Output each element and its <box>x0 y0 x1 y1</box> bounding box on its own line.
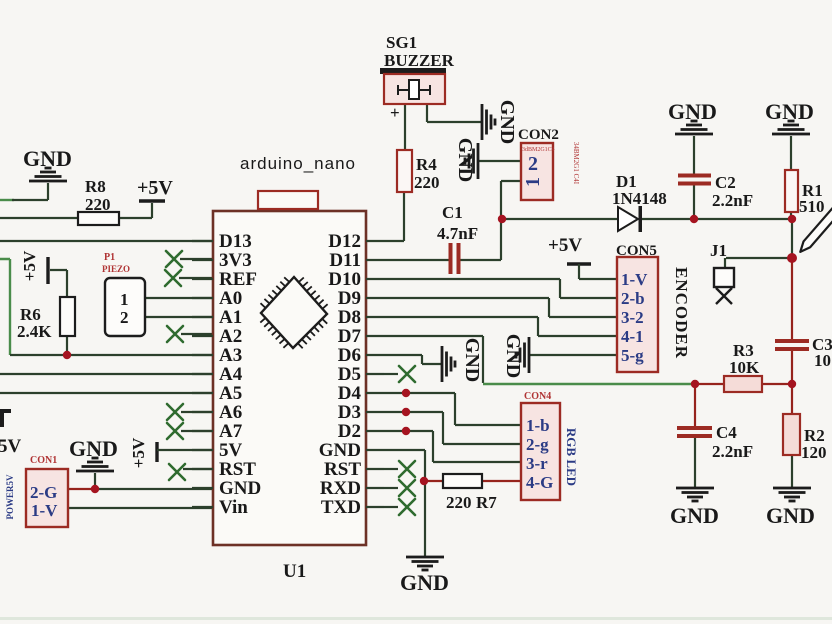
no-connect X D5 <box>399 366 415 382</box>
junction node B <box>691 380 699 388</box>
wire A2 stub <box>181 333 213 335</box>
svg-text:10: 10 <box>814 351 831 370</box>
svg-text:A0: A0 <box>219 288 242 309</box>
resistor R3 <box>724 341 762 392</box>
ground (C4) <box>676 487 714 503</box>
junction D2 <box>402 427 410 435</box>
resistor R4 <box>397 150 440 192</box>
buzzer SG1 <box>380 33 455 122</box>
svg-text:GND: GND <box>69 436 118 461</box>
svg-text:2: 2 <box>120 308 129 327</box>
wire C2 to node <box>693 185 695 219</box>
wire D1 cathode to C2/R1 <box>642 218 792 220</box>
connector P1 PIEZO <box>102 252 145 336</box>
svg-text:5V: 5V <box>219 440 243 461</box>
wire RST left stub <box>183 468 213 470</box>
svg-text:220: 220 <box>85 195 111 214</box>
svg-text:RXD: RXD <box>320 478 361 499</box>
wire 3V3 stub <box>180 258 213 260</box>
svg-text:C4: C4 <box>716 423 737 442</box>
diode D1 1N4148 <box>612 172 667 232</box>
junction J1 <box>787 253 797 263</box>
svg-text:220: 220 <box>446 493 472 512</box>
svg-text:GND: GND <box>219 478 261 499</box>
wire GND to R1 <box>790 136 792 170</box>
wire D11 to C1 <box>384 259 449 261</box>
ground (CON5 pin5) <box>515 337 531 373</box>
svg-text:2.4K: 2.4K <box>17 322 52 341</box>
svg-text:D5: D5 <box>338 364 361 385</box>
no-connect X A2 <box>167 326 183 342</box>
wire D3 to CON4 pin2 <box>384 412 521 444</box>
wire D13 <box>0 240 213 242</box>
wire node R1 down to J1 node <box>791 219 793 258</box>
svg-text:2.2nF: 2.2nF <box>712 442 753 461</box>
resistor R6 <box>17 297 75 341</box>
connector CON2 <box>518 127 559 200</box>
svg-text:2-b: 2-b <box>621 289 645 308</box>
probe arrow <box>797 207 832 254</box>
ground (C2) <box>675 120 713 136</box>
svg-text:2-g: 2-g <box>526 435 549 454</box>
svg-text:GND: GND <box>766 503 815 528</box>
wire J1 to node <box>725 258 792 268</box>
junction GND/CON1 <box>91 485 99 493</box>
svg-text:D12: D12 <box>328 231 361 252</box>
no-connect X 3V3 <box>166 251 182 267</box>
svg-text:1N4148: 1N4148 <box>612 189 667 208</box>
wire RXD stub <box>384 487 398 489</box>
junction C3 <box>788 380 796 388</box>
junction D3 <box>402 408 410 416</box>
wire CON2 pin1 to node A <box>501 181 521 219</box>
svg-text:D6: D6 <box>338 345 361 366</box>
svg-text:REF: REF <box>219 269 257 290</box>
svg-text:A5: A5 <box>219 383 242 404</box>
resistor R2 <box>783 414 827 462</box>
svg-text:CON1: CON1 <box>30 455 57 466</box>
svg-text:10K: 10K <box>729 358 760 377</box>
wire C4 to ground <box>694 437 696 488</box>
wire GND net top-left <box>0 199 14 201</box>
wire D2 to CON4 pin3 <box>384 431 521 462</box>
resistor R1 <box>785 170 825 216</box>
wire GND pin to ground <box>384 450 425 556</box>
svg-text:D7: D7 <box>338 326 362 347</box>
svg-text:GND: GND <box>670 503 719 528</box>
wire +5V to CON5 pin1 <box>579 264 617 279</box>
wire left bus to A3 <box>0 259 10 355</box>
wire +5V to R6 <box>50 270 67 355</box>
svg-text:arduino_nano: arduino_nano <box>240 154 356 173</box>
svg-text:1-V: 1-V <box>621 270 648 289</box>
wire node B to C4 <box>694 384 696 426</box>
wire C3 to node B <box>791 350 793 384</box>
svg-text:A2: A2 <box>219 326 242 347</box>
svg-text:1-b: 1-b <box>526 416 550 435</box>
svg-text:A3: A3 <box>219 345 242 366</box>
svg-text:CON2: CON2 <box>518 127 559 143</box>
svg-text:+5V: +5V <box>129 437 148 468</box>
bottom edge line <box>0 617 832 620</box>
svg-text:34BM2G1 C4I: 34BM2G1 C4I <box>572 142 580 185</box>
wire R3 left lead <box>695 383 724 385</box>
junction R6/A3 <box>63 351 71 359</box>
wire R7 leads <box>425 480 521 482</box>
svg-text:3-r: 3-r <box>526 454 548 473</box>
no-connect X TXD <box>399 499 415 515</box>
svg-text:2.2nF: 2.2nF <box>712 191 753 210</box>
svg-text:GND: GND <box>319 440 361 461</box>
ground (CON1/GND pin) <box>76 457 114 473</box>
wire R1 to node <box>790 212 792 219</box>
wire D6 to GND <box>384 355 441 364</box>
connector CON5 <box>616 243 658 372</box>
svg-text:3V3: 3V3 <box>219 250 252 271</box>
svg-text:U1: U1 <box>283 561 306 582</box>
junction R1 <box>788 215 796 223</box>
svg-text:D10: D10 <box>328 269 361 290</box>
svg-text:+: + <box>390 103 400 122</box>
svg-text:A7: A7 <box>219 421 243 442</box>
capacitor C3 <box>775 335 832 370</box>
ground (CON2 pin2) <box>464 143 480 179</box>
svg-text:PIEZO: PIEZO <box>102 264 130 274</box>
junction D4 <box>402 389 410 397</box>
svg-text:GND: GND <box>454 138 476 182</box>
arduino right pin labels <box>319 231 362 518</box>
arduino top red rectangle <box>258 191 318 209</box>
resistor R8 <box>78 177 119 225</box>
wire D7 down to encoder net <box>384 336 483 383</box>
svg-text:4-1: 4-1 <box>621 327 644 346</box>
svg-text:4.7nF: 4.7nF <box>437 224 478 243</box>
svg-text:ENCODER: ENCODER <box>672 267 691 359</box>
svg-text:D13: D13 <box>219 231 252 252</box>
connector CON1 <box>26 455 68 527</box>
no-connect X A6 <box>167 404 183 420</box>
svg-text:P1: P1 <box>104 252 115 263</box>
svg-text:D11: D11 <box>329 250 361 271</box>
svg-text:5V: 5V <box>0 436 22 457</box>
connector J1 <box>710 241 734 304</box>
wire D5 stub <box>384 373 398 375</box>
svg-text:C2: C2 <box>715 173 736 192</box>
svg-text:SG1: SG1 <box>386 33 417 52</box>
svg-text:+5V: +5V <box>137 177 173 199</box>
svg-text:2: 2 <box>528 153 538 175</box>
svg-text:D2: D2 <box>338 421 361 442</box>
svg-text:3-2: 3-2 <box>621 308 644 327</box>
wire A4 <box>0 373 213 375</box>
svg-text:GND: GND <box>496 100 518 144</box>
wire D8 to CON5 pin4 <box>384 317 617 336</box>
wire A6 stub <box>181 411 213 413</box>
svg-text:POWER5V: POWER5V <box>5 474 15 520</box>
junction R7/GND <box>420 477 428 485</box>
wire +5V to 5V pin <box>157 449 213 451</box>
svg-text:D3: D3 <box>338 402 361 423</box>
wire REF stub <box>179 277 213 279</box>
svg-text:+5V: +5V <box>20 250 39 281</box>
wire C1 to node A <box>460 219 501 260</box>
junction C2 <box>690 215 698 223</box>
svg-text:A4: A4 <box>219 364 243 385</box>
ground (R2) <box>773 487 811 503</box>
wire A5 <box>0 392 213 394</box>
power +5V symbol (R8) <box>139 199 165 202</box>
microcontroller chip symbol <box>260 277 327 348</box>
svg-text:D9: D9 <box>338 288 361 309</box>
svg-text:D8: D8 <box>338 307 361 328</box>
connector CON4 <box>521 391 560 500</box>
power +5V symbol (R6) <box>46 257 49 284</box>
svg-text:RGB LED: RGB LED <box>564 428 579 486</box>
svg-text:R4: R4 <box>416 155 437 174</box>
capacitor C2 <box>678 173 753 210</box>
svg-text:3dBM2G1C4: 3dBM2G1C4 <box>522 147 555 153</box>
wire GND to CON5 pin5 <box>530 354 617 356</box>
arduino U1 box <box>192 211 384 582</box>
wire node to R2 <box>791 384 793 414</box>
ground (buzzer) <box>481 104 497 140</box>
svg-text:1-V: 1-V <box>31 501 58 520</box>
wire R2 to ground <box>791 455 793 488</box>
wire D4 to CON4 pin1 <box>384 393 521 425</box>
wire J1 node down to C3 <box>791 258 793 339</box>
wire CON2 pin2 to GND <box>479 160 521 162</box>
svg-text:Vin: Vin <box>219 497 248 518</box>
cropped power symbol left edge <box>0 409 11 413</box>
wire TXD stub <box>384 506 398 508</box>
wire CON1 1-V to Vin <box>68 507 213 509</box>
capacitor C1 <box>437 203 478 274</box>
svg-text:BUZZER: BUZZER <box>384 51 455 70</box>
wire +5V through R8 <box>0 203 152 218</box>
wire CON1 2-G to GND pin <box>68 488 95 490</box>
wire A7 stub <box>181 430 213 432</box>
junction node A <box>498 215 506 223</box>
no-connect X RST left <box>169 464 185 480</box>
wire P1 pin2 to A1 <box>145 316 213 318</box>
svg-text:2-G: 2-G <box>30 483 57 502</box>
wire D9 to CON5 pin3 <box>384 298 617 317</box>
wire GND to C2 <box>693 136 695 174</box>
svg-text:5-g: 5-g <box>621 346 644 365</box>
wire RST right stub <box>384 468 398 470</box>
svg-text:A6: A6 <box>219 402 242 423</box>
svg-text:C1: C1 <box>442 203 463 222</box>
svg-text:GND: GND <box>400 570 449 595</box>
svg-text:D4: D4 <box>338 383 362 404</box>
svg-text:1: 1 <box>522 177 544 187</box>
arduino left pin labels <box>219 231 261 518</box>
svg-text:CON5: CON5 <box>616 243 657 259</box>
no-connect X A7 <box>167 423 183 439</box>
svg-text:R7: R7 <box>476 493 497 512</box>
svg-text:J1: J1 <box>710 241 727 260</box>
svg-text:220: 220 <box>414 173 440 192</box>
wire D12 to R4 <box>384 192 404 241</box>
svg-text:CON4: CON4 <box>524 391 551 402</box>
resistor R7 <box>443 474 497 512</box>
svg-text:+5V: +5V <box>548 235 582 256</box>
no-connect X RST right <box>399 461 415 477</box>
power +5V symbol (CON5) <box>567 262 591 265</box>
svg-text:R8: R8 <box>85 177 106 196</box>
svg-text:4-G: 4-G <box>526 473 553 492</box>
no-connect X RXD <box>399 480 415 496</box>
svg-text:510: 510 <box>799 197 825 216</box>
capacitor C4 <box>677 423 753 461</box>
power +5V symbol (5V pin) <box>155 442 158 462</box>
svg-text:1: 1 <box>120 290 129 309</box>
wire P1 pin1 to A0 <box>145 297 213 299</box>
svg-text:RST: RST <box>219 459 256 480</box>
ground (U1 GND pin) <box>406 556 444 572</box>
svg-text:120: 120 <box>801 443 827 462</box>
wire buzzer left pin to R4 <box>404 104 406 150</box>
ground top-left <box>29 167 67 183</box>
svg-text:GND: GND <box>461 338 483 382</box>
wire D10 to CON5 pin2 <box>384 279 617 298</box>
svg-text:A1: A1 <box>219 307 242 328</box>
ground (R1) <box>772 120 810 136</box>
svg-text:TXD: TXD <box>321 497 361 518</box>
wire buzzer right pin to GND <box>427 104 481 122</box>
ground (D6) <box>441 346 457 382</box>
wire node A to D1 anode <box>502 218 618 220</box>
svg-text:GND: GND <box>502 334 524 378</box>
wire encoder net (node B) <box>483 383 695 385</box>
wire R3 right lead <box>762 383 792 385</box>
no-connect X REF <box>165 270 181 286</box>
svg-text:RST: RST <box>324 459 361 480</box>
